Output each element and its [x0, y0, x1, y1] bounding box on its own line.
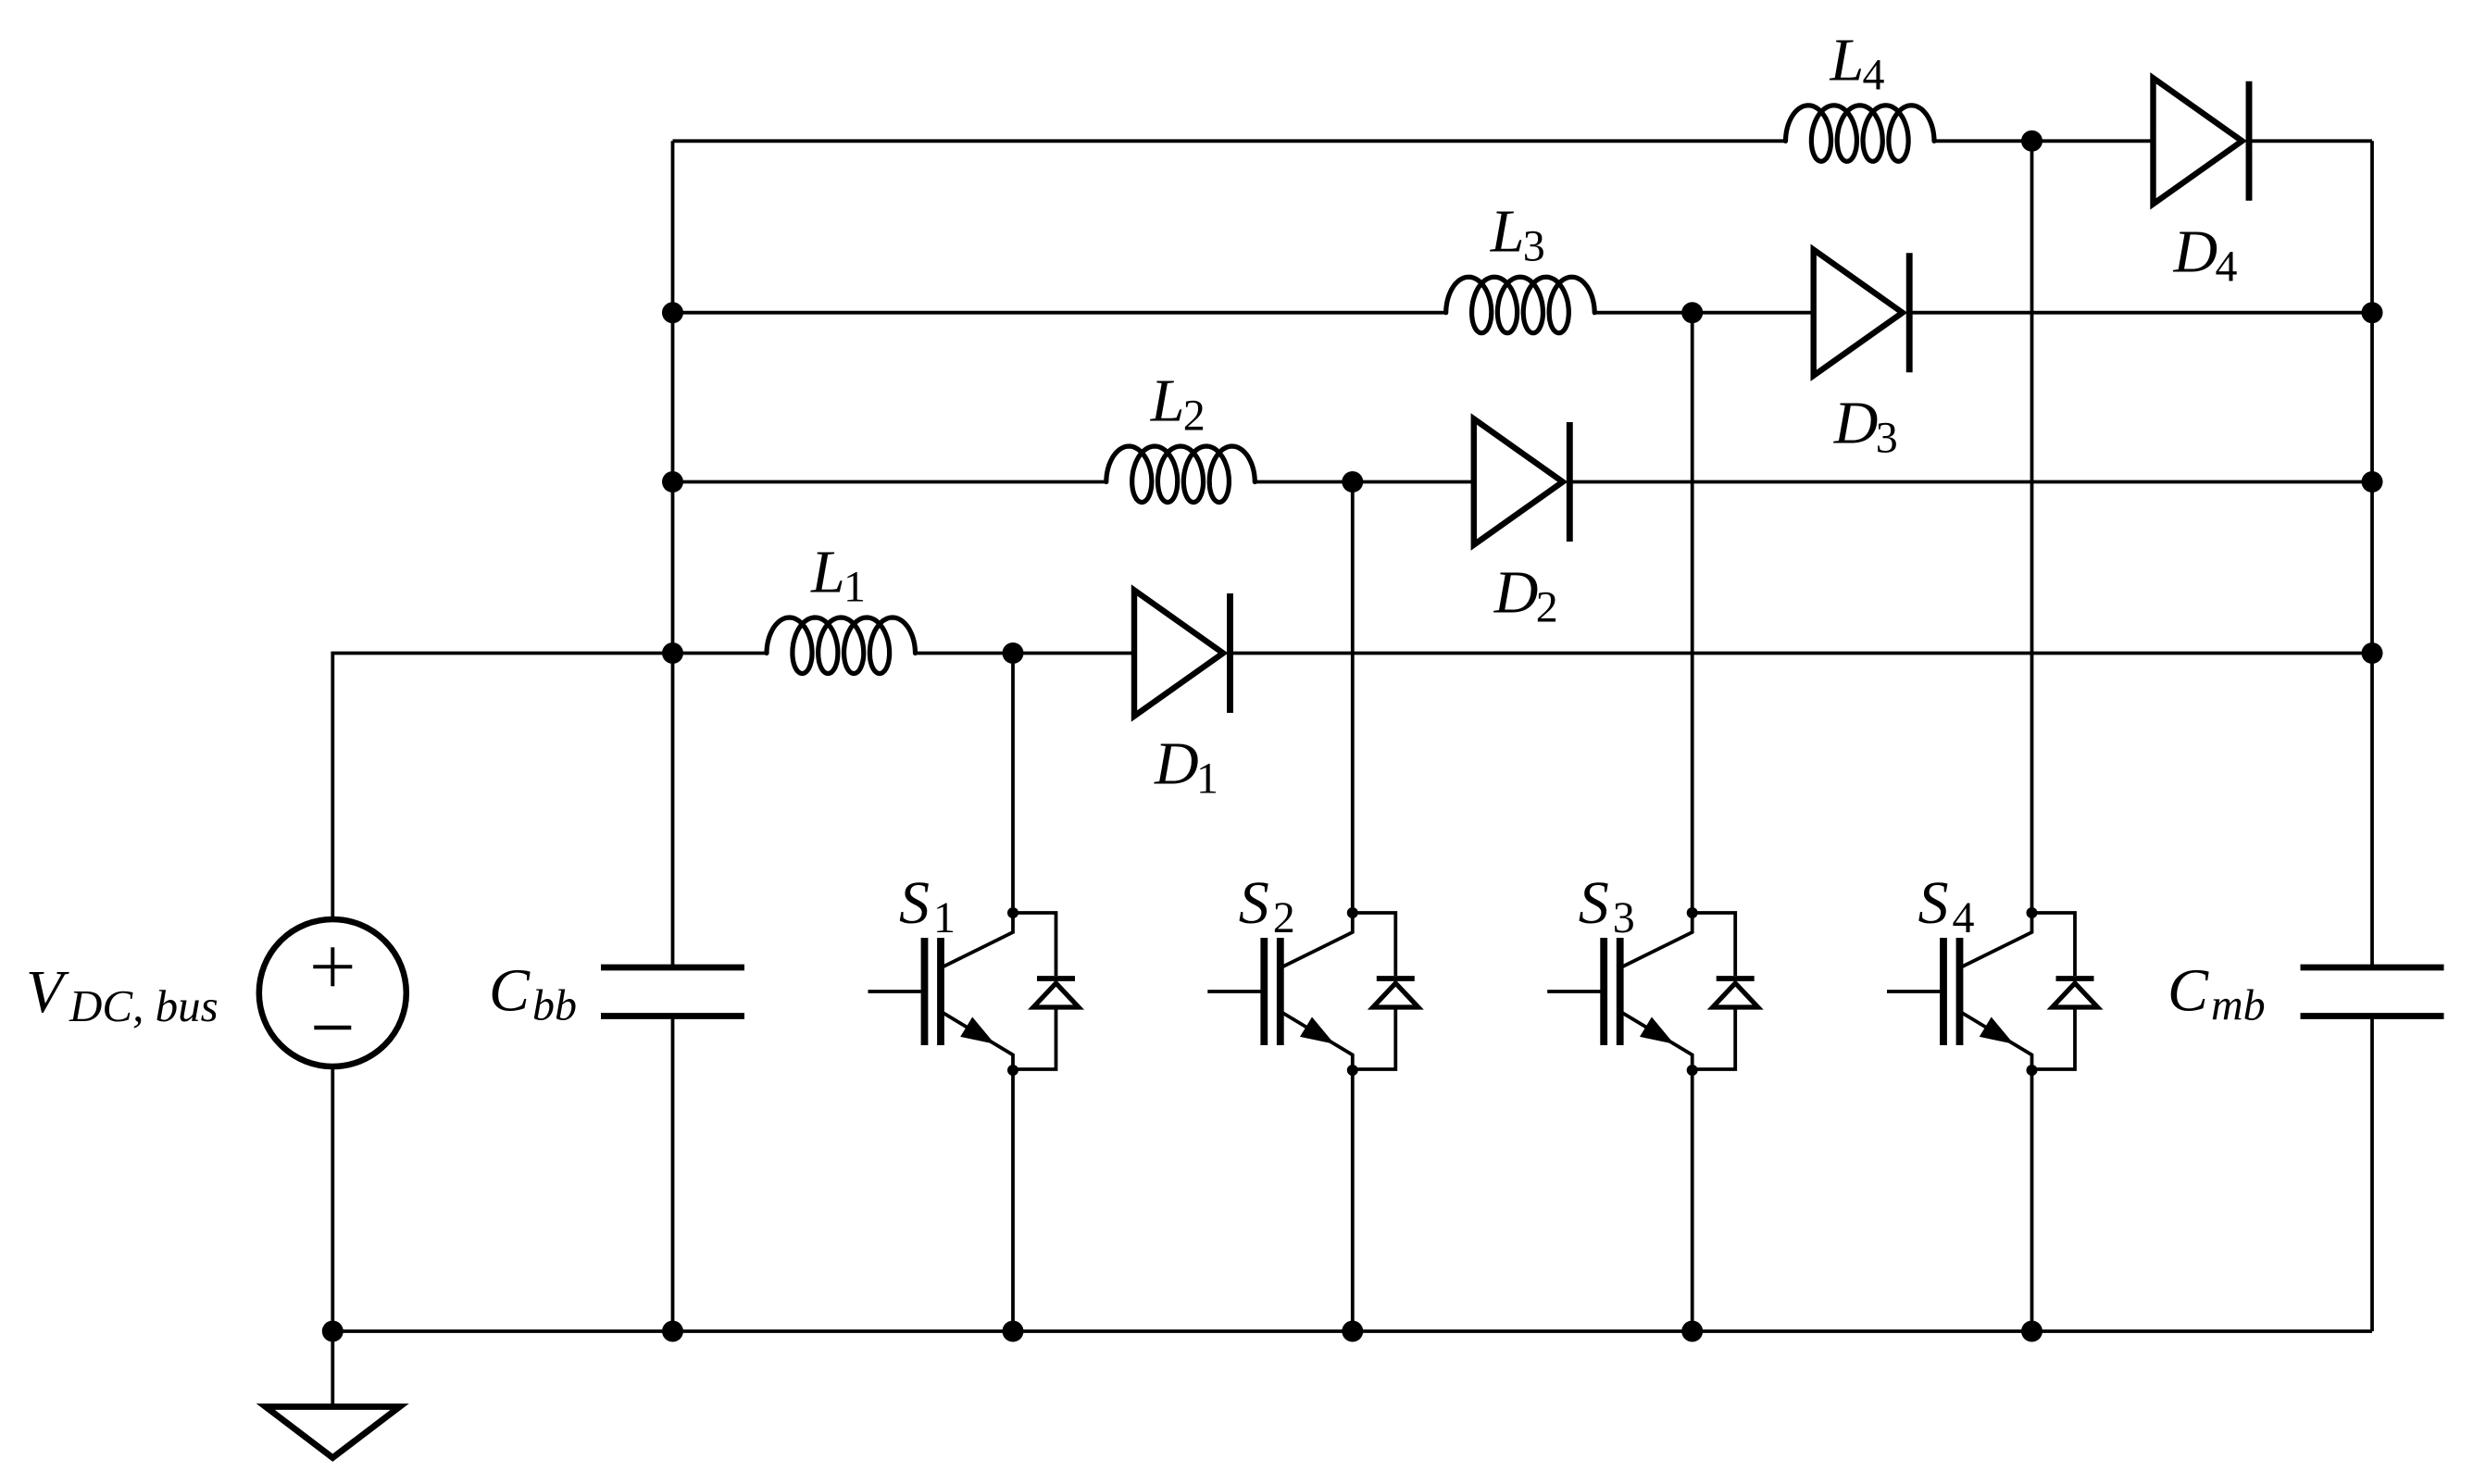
- svg-text:C: C: [2167, 957, 2209, 1025]
- wire D2 to output bus: [1569, 480, 2372, 484]
- label D1: [1154, 730, 1218, 804]
- node output-rail2: [2362, 471, 2383, 493]
- svg-text:S: S: [1239, 869, 1269, 937]
- svg-text:L: L: [810, 539, 845, 606]
- node output-rail3: [2362, 302, 2383, 323]
- svg-text:L: L: [1150, 368, 1185, 435]
- node S3-ground: [1681, 1321, 1703, 1342]
- inductor L1: [767, 617, 916, 674]
- wire L1 to node: [916, 652, 1135, 655]
- wire rail 1 left: [673, 139, 1786, 143]
- svg-text:C: C: [489, 957, 531, 1025]
- voltage source V_DC,bus: [259, 919, 406, 1066]
- inductor L4: [1786, 106, 1935, 162]
- svg-text:2: 2: [1536, 583, 1558, 632]
- wire S2 collector drop: [1351, 482, 1355, 914]
- wire L3 to node: [1594, 311, 1814, 315]
- inductor L3: [1446, 277, 1595, 333]
- svg-text:S: S: [1918, 869, 1949, 937]
- svg-text:3: 3: [1876, 414, 1898, 463]
- node S4-ground: [2021, 1321, 2043, 1342]
- wire V- to ground rail: [331, 1066, 334, 1331]
- diode D1: [1134, 591, 1231, 717]
- wire L4 to node: [1934, 139, 2154, 143]
- label S3: [1579, 869, 1635, 942]
- svg-text:2: 2: [1273, 893, 1295, 942]
- svg-text:3: 3: [1613, 893, 1635, 942]
- node input-rail2: [662, 471, 683, 493]
- node L3-S3: [1681, 302, 1703, 323]
- svg-text:DC, bus: DC, bus: [69, 980, 219, 1031]
- svg-text:4: 4: [2216, 242, 2238, 291]
- svg-text:S: S: [1579, 869, 1609, 937]
- wire ground rail: [332, 1329, 2372, 1333]
- wire S3 emitter to ground rail: [1691, 1070, 1694, 1331]
- wire L2 to node: [1255, 480, 1474, 484]
- diode D3: [1814, 250, 1910, 376]
- node input-rail1: [662, 642, 683, 664]
- label S2: [1239, 869, 1295, 942]
- label D2: [1493, 559, 1558, 632]
- label C_mb: [2167, 957, 2266, 1030]
- svg-text:D: D: [2173, 218, 2218, 285]
- label D4: [2173, 218, 2238, 291]
- wire V+ to input node: [332, 654, 672, 920]
- diode D4: [2154, 78, 2250, 204]
- wire D4 to output bus: [2249, 139, 2372, 143]
- wire output bus vertical: [2370, 141, 2374, 967]
- svg-text:D: D: [1493, 559, 1539, 627]
- wire D3 to output bus: [1909, 311, 2372, 315]
- svg-text:S: S: [899, 869, 930, 937]
- svg-text:D: D: [1833, 390, 1879, 457]
- svg-text:4: 4: [1953, 893, 1975, 942]
- node L1-S1: [1003, 642, 1024, 664]
- node S1-ground: [1003, 1321, 1024, 1342]
- node L2-S2: [1342, 471, 1363, 493]
- svg-text:1: 1: [843, 563, 866, 612]
- wire rail 3 left: [673, 480, 1106, 484]
- wire S4 emitter to ground rail: [2030, 1070, 2034, 1331]
- label L4: [1830, 26, 1885, 99]
- label L3: [1490, 198, 1545, 271]
- label V_DC,bus: [26, 958, 219, 1031]
- label S4: [1918, 869, 1975, 942]
- label S1: [899, 869, 956, 942]
- node Vminus-ground: [322, 1321, 344, 1342]
- label L2: [1150, 368, 1206, 441]
- svg-text:3: 3: [1523, 222, 1545, 271]
- wire S4 collector drop: [2030, 141, 2034, 913]
- svg-text:L: L: [1490, 198, 1525, 266]
- svg-text:V: V: [26, 958, 69, 1026]
- node input-rail3: [662, 302, 683, 323]
- svg-text:mb: mb: [2211, 981, 2266, 1030]
- label D3: [1833, 390, 1898, 463]
- wire D1 to output bus: [1231, 652, 2373, 655]
- wire input bus vertical: [671, 141, 675, 653]
- wire S2 emitter to ground rail: [1351, 1070, 1355, 1331]
- wire S1 emitter to ground rail: [1011, 1070, 1015, 1331]
- svg-text:L: L: [1830, 26, 1865, 94]
- svg-text:4: 4: [1863, 50, 1885, 99]
- svg-text:D: D: [1154, 730, 1199, 798]
- wire S3 collector drop: [1691, 313, 1694, 913]
- diode D2: [1474, 419, 1570, 545]
- svg-text:2: 2: [1183, 392, 1206, 441]
- node S2-ground: [1342, 1321, 1363, 1342]
- ground: [266, 1331, 400, 1458]
- node Cbb-ground: [662, 1321, 683, 1342]
- transistor S1: [868, 907, 1080, 1076]
- transistor S4: [1887, 907, 2098, 1076]
- wire rail 4 left: [673, 652, 768, 655]
- capacitor C_bb: [601, 654, 744, 1332]
- wire S1 collector drop: [1011, 654, 1015, 914]
- wire rail 2 left: [673, 311, 1446, 315]
- node output-rail1: [2362, 642, 2383, 664]
- svg-text:bb: bb: [532, 981, 577, 1030]
- label L1: [810, 539, 866, 612]
- svg-text:1: 1: [933, 893, 956, 942]
- transistor S3: [1547, 907, 1758, 1076]
- node L4-S4: [2021, 131, 2043, 152]
- capacitor C_mb: [2301, 967, 2444, 1331]
- svg-text:1: 1: [1196, 754, 1218, 804]
- label C_bb: [489, 957, 577, 1030]
- inductor L2: [1106, 446, 1255, 503]
- transistor S2: [1207, 907, 1418, 1076]
